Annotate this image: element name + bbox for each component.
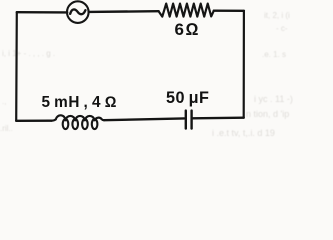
wire: bottom-right segment (capacitor to corner) <box>193 116 244 119</box>
inductor loop 1 <box>63 119 69 129</box>
capacitor C left plate <box>185 111 187 129</box>
svg-text:50 μF: 50 μF <box>166 89 209 107</box>
svg-text:.,: ., <box>2 97 6 106</box>
svg-text:.e. 1. s: .e. 1. s <box>262 50 286 59</box>
AC source sine symbol <box>70 9 85 14</box>
svg-text:i yc . 11 -): i yc . 11 -) <box>254 94 293 104</box>
inductor loop 4 <box>92 119 98 129</box>
inductor loop 2 <box>72 119 78 129</box>
wire: top-right segment (resistor to corner) <box>214 9 244 12</box>
svg-text:n tion, d 'ip: n tion, d 'ip <box>246 109 289 119</box>
wire: bottom-middle segment (inductor to capacitor) <box>104 118 184 120</box>
svg-text:i, i 1+ - . , , . g .: i, i 1+ - . , , . g . <box>2 49 55 58</box>
svg-text:6Ω: 6Ω <box>175 20 201 39</box>
svg-text:i .e.t tv, t,.i. d 19: i .e.t tv, t,.i. d 19 <box>212 128 275 138</box>
capacitor C right plate <box>190 111 192 129</box>
wire: bottom-left segment (corner to inductor) <box>16 119 51 122</box>
wire: top-left segment (corner to source) <box>17 11 67 14</box>
wire: right vertical <box>243 11 245 118</box>
inductor L (5 mH, 4 ohm) coil arches <box>52 115 105 120</box>
faint page bleed-through marks (decorative) <box>0 11 293 138</box>
svg-text:- c-: - c- <box>276 24 288 33</box>
inductor loop 3 <box>82 119 88 129</box>
svg-text:.ril..: .ril.. <box>0 124 13 133</box>
wire: left vertical <box>15 12 18 121</box>
wire: top-middle segment (source to resistor) <box>89 10 159 13</box>
svg-text:it, 2, i (i: it, 2, i (i <box>264 11 290 20</box>
svg-text:5 mH , 4 Ω: 5 mH , 4 Ω <box>42 94 117 111</box>
AC source <box>67 1 89 23</box>
resistor R (6 ohm) zigzag <box>159 4 214 17</box>
